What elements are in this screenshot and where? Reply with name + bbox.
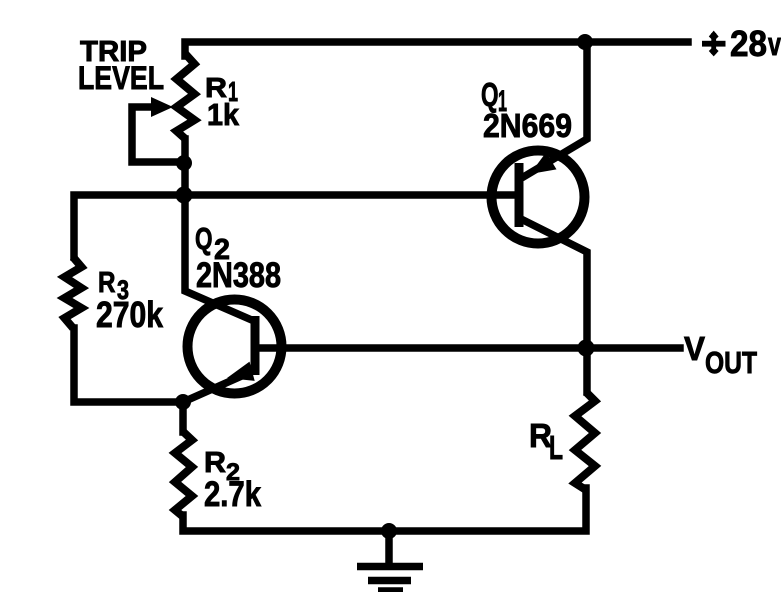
svg-text:2N669: 2N669 xyxy=(483,107,572,144)
svg-text:OUT: OUT xyxy=(705,345,757,380)
svg-text:2.7k: 2.7k xyxy=(204,475,261,514)
svg-text:v: v xyxy=(768,26,781,62)
svg-text:270k: 270k xyxy=(96,294,164,335)
svg-text:V: V xyxy=(684,330,705,367)
svg-text:1k: 1k xyxy=(207,97,240,132)
svg-text:28: 28 xyxy=(730,23,767,64)
svg-text:Q: Q xyxy=(195,221,213,256)
svg-text:L: L xyxy=(549,429,563,466)
svg-text:2N388: 2N388 xyxy=(196,256,281,295)
svg-text:LEVEL: LEVEL xyxy=(78,60,164,96)
